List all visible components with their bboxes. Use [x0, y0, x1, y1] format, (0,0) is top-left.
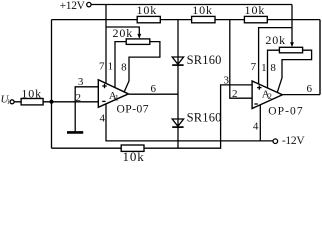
wire: pot1 right to pin8	[124, 42, 160, 92]
wire: left vertical input node	[51, 20, 53, 149]
svg-text:20k: 20k	[112, 26, 133, 40]
svg-text:3: 3	[223, 74, 229, 86]
resistor R3 10k (box2)	[192, 16, 215, 22]
svg-text:2: 2	[75, 92, 81, 104]
wire: diode column	[177, 20, 179, 149]
svg-text:7: 7	[99, 61, 105, 73]
resistor R2 10k (box1)	[137, 16, 160, 22]
svg-text:OP-07: OP-07	[117, 103, 150, 115]
svg-text:8: 8	[121, 61, 127, 73]
wire: A2 output pin6	[282, 94, 320, 96]
svg-text:10k: 10k	[245, 3, 266, 17]
svg-text:8: 8	[270, 62, 276, 74]
wire: pot2 right to pin8	[277, 50, 311, 92]
+12V supply terminal	[87, 2, 91, 6]
resistor R1 10k (input)	[21, 99, 43, 105]
svg-text:4: 4	[253, 121, 259, 133]
svg-text:+12V: +12V	[60, 0, 86, 12]
svg-text:10k: 10k	[136, 3, 157, 17]
pot1 20k	[126, 39, 150, 45]
diode D1 SR160	[172, 57, 183, 65]
svg-text:-12V: -12V	[282, 135, 305, 147]
wire: A2 pin2 from row	[230, 20, 252, 99]
wire: A2 pin4	[259, 105, 261, 141]
svg-text:10k: 10k	[192, 3, 213, 17]
svg-text:6: 6	[150, 83, 156, 95]
wire: A1 output pin6	[128, 93, 178, 95]
svg-text:6: 6	[306, 83, 312, 95]
svg-text:2: 2	[232, 88, 238, 100]
svg-text:1: 1	[115, 93, 119, 102]
wire: +12V rail top	[91, 4, 292, 6]
pot1 wiper arrow	[137, 34, 141, 39]
input terminal Ui	[10, 100, 14, 104]
pot2 20k	[279, 47, 302, 53]
svg-text:3: 3	[78, 76, 84, 88]
wire: +12V drop to A1 pin7	[105, 5, 107, 84]
svg-text:SR160: SR160	[187, 53, 222, 67]
wire: branch to A2 pin7	[259, 28, 292, 84]
wire: pot1 left to pin1	[115, 42, 126, 88]
svg-text:i: i	[7, 98, 9, 106]
resistor R4 10k (box3)	[244, 16, 267, 22]
svg-text:1: 1	[261, 62, 267, 74]
wire: bottom feedback	[52, 85, 253, 148]
wire: input to A1 pin2	[14, 101, 98, 103]
svg-text:10k: 10k	[21, 87, 42, 101]
wire: right vertical to A2 output	[319, 20, 321, 95]
wire: branch to pot1 wiper	[106, 27, 139, 35]
svg-text:4: 4	[99, 113, 105, 125]
wire: feedback row	[52, 19, 321, 21]
ground	[67, 131, 83, 134]
svg-text:20k: 20k	[265, 33, 286, 47]
svg-text:7: 7	[251, 61, 257, 73]
svg-text:OP-07: OP-07	[268, 105, 304, 117]
svg-text:SR160: SR160	[187, 111, 222, 125]
op-amp A1 OP-07	[98, 80, 128, 108]
pot2 wiper arrow	[290, 42, 294, 47]
svg-text:10k: 10k	[122, 149, 144, 162]
op-amp A2 OP-07	[252, 81, 282, 109]
wire: -12V rail	[106, 104, 273, 141]
wire: pot2 left to pin1	[268, 50, 280, 88]
svg-text:2: 2	[268, 92, 272, 101]
resistor R5 10k (bottom)	[121, 145, 144, 151]
svg-text:1: 1	[108, 61, 114, 73]
node: junction input/feedback	[50, 100, 54, 104]
diode D2 SR160	[172, 119, 183, 127]
wire: +12V drop to pot2 wiper	[291, 5, 293, 44]
wire: A1 pin3	[75, 87, 98, 132]
-12V terminal	[273, 139, 278, 144]
